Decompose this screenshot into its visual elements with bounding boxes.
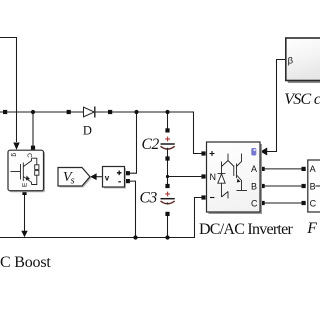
wire midpoint to N port <box>168 176 202 178</box>
arrowhead gate into IGBT <box>13 143 19 150</box>
port voltmeter minus <box>126 179 130 183</box>
wire main positive DC rail <box>0 112 201 154</box>
port inverter C out <box>261 201 265 205</box>
wire phase A <box>265 168 302 170</box>
block three-phase filter <box>308 160 320 212</box>
wire Vs tag to voltmeter <box>96 176 103 178</box>
port C3 top <box>165 184 169 188</box>
arrowhead gate into inverter <box>260 148 267 156</box>
port filter B in <box>302 184 306 188</box>
svg-text:s: s <box>71 175 75 186</box>
port inverter minus <box>201 195 205 199</box>
wire IGBT emitter down <box>24 195 26 232</box>
block VSC control <box>286 38 320 83</box>
wire phase C <box>265 202 302 204</box>
capacitor C2 <box>161 137 175 150</box>
svg-text:C: C <box>310 198 317 208</box>
inverter internal igbt-diode icon <box>218 154 247 199</box>
port inverter B out <box>261 184 265 188</box>
pin g gate port <box>251 148 256 156</box>
svg-text:A: A <box>310 164 316 174</box>
svg-text:F: F <box>306 220 317 237</box>
wire C3 top lead <box>167 177 169 185</box>
transistor IGBT boost switch block <box>8 150 45 192</box>
port filter A in <box>302 167 306 171</box>
wire gate from VSC control <box>267 60 286 152</box>
port C3 bottom <box>165 212 169 216</box>
svg-text:A: A <box>251 164 257 174</box>
wire C3 bottom lead <box>167 216 169 238</box>
port C2 top <box>165 128 169 132</box>
node junction DC midpoint <box>166 175 169 178</box>
goto tag Vs <box>58 168 92 188</box>
port inverter plus <box>201 151 205 155</box>
capacitor C3 <box>161 192 175 205</box>
node junction Vmeter minus bottom <box>133 235 137 239</box>
wire Vmeter plus sense <box>130 112 137 173</box>
node junction C3 bottom <box>165 235 169 239</box>
wire gate input top-left <box>0 38 17 143</box>
svg-text:VSC c: VSC c <box>284 91 320 108</box>
svg-text:D: D <box>83 123 92 137</box>
wire Vmeter minus sense <box>130 181 136 237</box>
wire branch to IGBT collector <box>32 112 34 146</box>
port IGBT emitter <box>22 191 26 195</box>
svg-text:N: N <box>210 172 217 182</box>
diode D <box>84 107 95 118</box>
svg-text:C2: C2 <box>142 136 160 153</box>
wire negative DC rail bottom <box>0 198 201 238</box>
port filter C in <box>302 201 306 205</box>
arrowhead IGBT emitter to rail <box>21 231 27 238</box>
svg-text:B: B <box>310 181 316 191</box>
pin label plus <box>210 151 215 156</box>
pin label minus <box>210 197 214 199</box>
svg-text:C3: C3 <box>140 190 158 207</box>
svg-text:B: B <box>251 181 257 191</box>
node junction C2 top <box>165 110 169 114</box>
port left boost input <box>3 110 7 114</box>
voltmeter block Vdc measure <box>103 167 127 189</box>
wire C2 top lead <box>167 112 169 129</box>
svg-text:DC/AC Inverter: DC/AC Inverter <box>199 221 293 238</box>
node junction IGBT collector branch <box>31 110 35 114</box>
port inverter N <box>201 174 205 178</box>
port diode cathode <box>108 110 112 114</box>
op block DC/AC inverter <box>207 142 263 214</box>
svg-text:C: C <box>251 198 258 208</box>
wire C2 bottom lead to midpoint <box>167 149 169 176</box>
svg-text:v: v <box>105 173 110 182</box>
arrowhead into Vs tag <box>90 173 96 180</box>
svg-text:C Boost: C Boost <box>0 254 51 271</box>
port C2 bottom <box>165 156 169 160</box>
svg-text:E: E <box>22 182 29 187</box>
svg-text:β: β <box>288 56 294 67</box>
wire phase B <box>265 185 302 187</box>
node junction Vmeter plus <box>134 110 138 114</box>
svg-text:C: C <box>26 153 33 158</box>
port voltmeter plus <box>126 171 130 175</box>
port inverter A out <box>261 167 265 171</box>
svg-text:g: g <box>11 153 18 157</box>
port IGBT collector <box>31 146 35 150</box>
port diode anode <box>67 110 71 114</box>
